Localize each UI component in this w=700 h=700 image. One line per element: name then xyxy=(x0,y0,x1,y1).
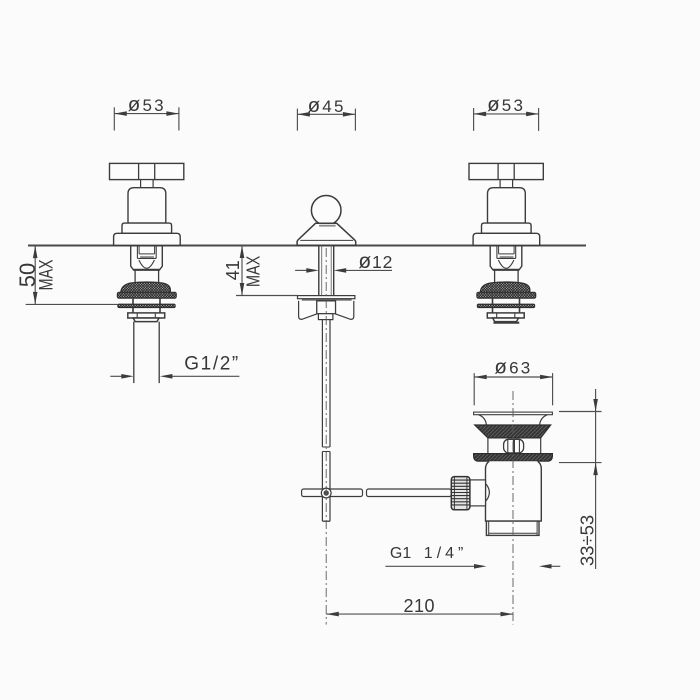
flange funnel left xyxy=(479,415,487,425)
svg-text:G1: G1 xyxy=(390,545,411,562)
pivot joint xyxy=(321,488,331,498)
horseshoe plate xyxy=(298,296,355,299)
right valve V2 xyxy=(469,163,543,321)
plug cone seal xyxy=(475,425,551,438)
lever rod to drain xyxy=(367,489,452,497)
right valve tube stub xyxy=(494,322,518,323)
tailpipe thread xyxy=(486,521,539,535)
pop-up rod segment 2 xyxy=(321,452,323,522)
dimension G1/2" xyxy=(110,375,122,377)
svg-text:1/4”: 1/4” xyxy=(424,545,468,562)
dimension 33÷53 xyxy=(559,389,602,569)
svg-text:ø63: ø63 xyxy=(494,356,532,379)
dimension ø53 left xyxy=(114,107,179,130)
pop-up knob bell base xyxy=(297,223,356,245)
svg-text:ø53: ø53 xyxy=(487,93,525,116)
drain flange xyxy=(474,412,553,415)
drain body xyxy=(486,461,542,521)
countertop deck line xyxy=(28,245,586,247)
left valve supply tube xyxy=(133,322,135,384)
horseshoe bracket left lobe xyxy=(299,301,317,320)
rod centerline xyxy=(325,248,327,625)
dimension 41 MAX xyxy=(236,246,297,296)
overflow cage pill xyxy=(504,439,524,453)
dimension ø53 right xyxy=(474,108,539,131)
pop-up rod segment 1 xyxy=(321,320,323,447)
svg-text:G1/2”: G1/2” xyxy=(184,354,240,375)
ball socket arc xyxy=(486,484,489,501)
svg-text:MAX: MAX xyxy=(34,259,57,290)
svg-text:210: 210 xyxy=(404,596,436,616)
dimension ø12 leader xyxy=(295,269,307,271)
body seal washer xyxy=(474,454,553,462)
left valve V1 xyxy=(110,163,184,321)
bell groove xyxy=(319,225,336,227)
svg-text:MAX: MAX xyxy=(243,256,264,287)
svg-text:ø53: ø53 xyxy=(128,93,166,116)
drain centerline xyxy=(512,391,514,625)
pop-up rod upper (below deck) xyxy=(318,246,320,296)
dimension ø45 center xyxy=(297,109,355,131)
horseshoe bracket right lobe xyxy=(336,301,354,320)
dimension ø63 xyxy=(474,373,552,405)
horseshoe center nut xyxy=(317,301,336,314)
dimension G1 1/4" xyxy=(385,565,475,567)
svg-text:33÷53: 33÷53 xyxy=(576,515,597,566)
bell rim line xyxy=(300,239,353,241)
lever socket connector xyxy=(470,480,486,506)
pop-up knob ball xyxy=(311,196,341,226)
svg-text:ø12: ø12 xyxy=(358,250,393,273)
flange funnel right xyxy=(540,415,548,425)
svg-text:ø45: ø45 xyxy=(308,94,346,117)
knurled adjuster nut xyxy=(451,477,470,510)
dimension 50 MAX xyxy=(26,246,119,305)
dimension 210 xyxy=(326,613,513,615)
lever cross bar xyxy=(302,489,363,497)
svg-text:41: 41 xyxy=(223,260,243,280)
drain neck xyxy=(487,438,489,454)
horseshoe lower block xyxy=(318,314,333,320)
